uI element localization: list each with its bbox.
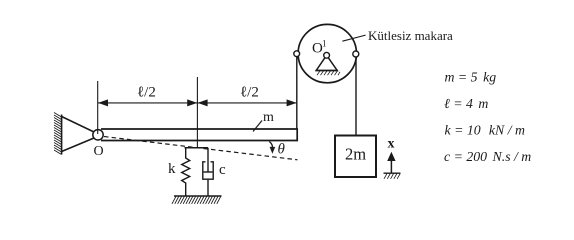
svg-text:O: O	[94, 144, 104, 159]
svg-text:ℓ/2: ℓ/2	[137, 85, 156, 101]
svg-text:1: 1	[322, 39, 327, 49]
svg-text:ℓ = 4 m: ℓ = 4 m	[444, 96, 488, 111]
svg-text:c: c	[219, 162, 226, 178]
svg-text:ℓ/2: ℓ/2	[240, 85, 259, 101]
svg-text:2m: 2m	[345, 145, 366, 164]
svg-text:k: k	[168, 161, 176, 177]
svg-text:m: m	[263, 110, 274, 125]
svg-text:Kütlesiz makara: Kütlesiz makara	[368, 28, 453, 43]
svg-text:x: x	[388, 137, 395, 152]
svg-text:m = 5 kg: m = 5 kg	[445, 70, 497, 85]
svg-text:θ: θ	[278, 141, 286, 157]
svg-text:c = 200 N.s / m: c = 200 N.s / m	[444, 149, 531, 164]
svg-text:k = 10 kN / m: k = 10 kN / m	[445, 123, 525, 138]
